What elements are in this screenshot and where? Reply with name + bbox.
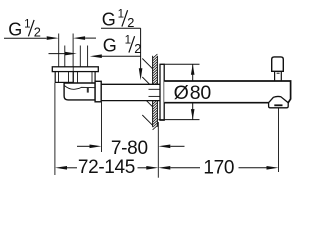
dimension 170 [158,166,170,170]
spout outlet bump with aerator [269,96,289,107]
extension line left (fitting face) [54,83,56,175]
diverter knob [274,71,276,81]
svg-text:G: G [103,36,117,56]
svg-text:Ø: Ø [174,82,189,104]
svg-text:1: 1 [118,9,124,21]
dimension 72-145 [55,166,67,170]
svg-text:72-145: 72-145 [78,157,135,178]
svg-text:2: 2 [134,41,141,56]
dia 80 extension lines [161,63,200,65]
svg-text:G: G [102,10,116,30]
union fitting: right block [73,72,95,87]
supply pipe through wall [101,85,160,100]
svg-text:7-80: 7-80 [111,138,148,159]
elbow shadow detail [87,88,89,93]
svg-text:G: G [8,19,22,39]
svg-text:80: 80 [190,82,212,104]
svg-text:170: 170 [203,158,234,179]
extension line wall face [157,122,159,178]
technical drawing: wall-mounted bath spout with union fitting [0,0,300,184]
G1/2 extension ticks above fitting [58,34,60,67]
dimension 7-80 [77,145,90,147]
svg-text:1: 1 [24,18,30,30]
union fitting: wall flange bar [52,67,98,72]
G1/2 row2 arrow [49,53,66,55]
spout tube body [164,81,290,103]
union nut bar [95,81,101,102]
escutcheon flange [160,64,164,120]
G1/2 row1 dimension arrows [47,36,59,40]
wall coarse hatch [142,59,152,69]
union fitting: elbow body [64,83,95,100]
svg-text:2: 2 [34,25,41,40]
extension line spout outlet [278,108,280,172]
dia 80 dimension line and arrows [192,64,194,81]
union fitting: left nut block [55,72,73,83]
svg-text:1: 1 [125,35,131,47]
wall band with fine hatch [153,54,158,130]
leader A vertical with down arrow [140,28,142,71]
svg-text:2: 2 [127,15,134,30]
extension line union nut [101,103,103,153]
